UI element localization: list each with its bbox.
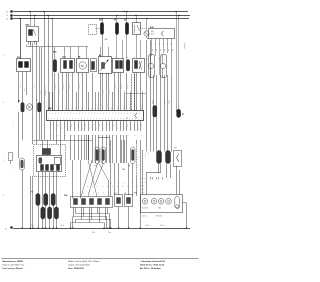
wire [118, 207, 120, 228]
wire [163, 43, 165, 53]
wire [54, 51, 56, 60]
wire [42, 172, 44, 207]
wire [112, 121, 114, 131]
wire [110, 140, 112, 197]
wire [134, 121, 136, 131]
wire [64, 47, 66, 51]
junction [37, 227, 38, 228]
wire [49, 172, 51, 207]
junction [43, 11, 44, 12]
valve pill [131, 147, 136, 164]
wire [38, 206, 40, 228]
dashed link [96, 28, 101, 30]
terminal [57, 165, 60, 171]
wire [160, 75, 162, 152]
svg-text:Manufacturer: BMW: Manufacturer: BMW [3, 260, 24, 263]
resistor [126, 60, 129, 72]
wire [44, 12, 46, 141]
title block rule [2, 258, 199, 260]
wire [86, 135, 88, 160]
svg-text:30: 30 [6, 11, 8, 13]
wire [170, 164, 172, 179]
wire [95, 92, 97, 110]
valve pill pair [101, 147, 106, 164]
wire [158, 164, 160, 174]
wire [18, 112, 20, 158]
wire [134, 73, 136, 111]
svg-text:0.75 br: 0.75 br [117, 90, 119, 94]
wire [47, 140, 49, 155]
wire [140, 140, 142, 228]
wire [56, 172, 58, 207]
wire [56, 131, 58, 144]
wire [136, 35, 138, 59]
wire [54, 73, 56, 111]
wire [92, 121, 94, 131]
wire crossing [88, 164, 97, 197]
wire [130, 92, 132, 110]
wire [32, 176, 34, 228]
junction [49, 227, 50, 228]
ECU symbol [135, 113, 137, 118]
svg-text:F23: F23 [99, 20, 102, 22]
svg-text:0.5 sw 0.5 br: 0.5 sw 0.5 br [141, 182, 148, 184]
gauge mark [144, 200, 146, 202]
connector [125, 195, 133, 207]
svg-text:R1: R1 [182, 114, 184, 116]
svg-text:B8: B8 [129, 165, 131, 167]
wire [41, 47, 43, 140]
svg-text:B14: B14 [174, 148, 177, 150]
cluster text [143, 216, 162, 218]
connector C110 [61, 59, 75, 73]
wire [38, 172, 40, 194]
svg-text:0.75 br: 0.75 br [65, 90, 67, 94]
svg-text:sw: sw [163, 49, 165, 51]
glow plug 6 [54, 207, 58, 219]
connector X40 [91, 59, 97, 72]
wire [53, 206, 55, 228]
wire [99, 208, 101, 223]
wire [108, 180, 110, 197]
connector [113, 59, 124, 73]
wire [97, 208, 99, 214]
module A12 [149, 29, 175, 39]
wire [74, 121, 76, 131]
wire [75, 220, 77, 223]
junction [178, 15, 179, 16]
module pin [163, 39, 165, 44]
junction [146, 18, 147, 19]
injection valve Y7 [161, 55, 167, 78]
unit box dashed [34, 145, 66, 177]
svg-text:Y28: Y28 [64, 195, 67, 197]
svg-text:0.5 sw/br: 0.5 sw/br [85, 84, 87, 90]
wire [137, 121, 139, 131]
wire [120, 73, 122, 111]
relay coil symbol [144, 31, 149, 36]
wire [83, 208, 85, 217]
svg-text:sw: sw [167, 49, 169, 51]
wire [84, 135, 86, 160]
fuse box dashed [89, 25, 97, 35]
svg-text:0.75 br: 0.75 br [23, 88, 25, 92]
junction [123, 11, 124, 12]
wire [42, 219, 44, 228]
terminal [19, 62, 23, 68]
svg-text:30 15 31b: 30 15 31b [142, 208, 148, 210]
wire [178, 16, 180, 113]
wire [151, 43, 153, 56]
wire [74, 135, 76, 160]
wire [140, 73, 142, 111]
svg-text:0.5 sw/br: 0.5 sw/br [62, 84, 64, 90]
wire [68, 73, 70, 111]
wire [109, 121, 111, 131]
junction [116, 15, 117, 16]
wire [100, 73, 102, 111]
svg-text:Year: 1998-2001: Year: 1998-2001 [68, 268, 85, 270]
wire [153, 75, 155, 152]
junction [106, 227, 107, 228]
wire [116, 121, 118, 131]
svg-text:sw: sw [171, 49, 173, 51]
wire [32, 43, 34, 48]
wire [81, 121, 83, 131]
wire [122, 40, 124, 59]
wire [98, 121, 100, 131]
junction [109, 227, 110, 228]
terminal [116, 61, 119, 69]
wire [22, 112, 24, 140]
glow plug 3 [51, 194, 55, 206]
tick row [151, 177, 163, 180]
wire [121, 140, 123, 163]
wire [114, 163, 116, 195]
junction [32, 227, 33, 228]
wire collector [33, 140, 92, 142]
wire [54, 47, 56, 51]
wire [130, 121, 132, 131]
svg-text:B1 a: B1 a [151, 34, 154, 36]
resistor R1 [177, 109, 181, 117]
wire [70, 223, 72, 228]
terminal [51, 165, 54, 171]
wire [32, 140, 34, 144]
sensor B7 [99, 57, 112, 74]
wire [150, 40, 152, 152]
wire [20, 19, 22, 60]
injector 4 [98, 199, 102, 205]
wire collector [76, 219, 111, 221]
svg-text:0.5 sw/br: 0.5 sw/br [105, 84, 107, 90]
terminal [25, 62, 29, 68]
svg-text:1.5 sw/ge: 1.5 sw/ge [160, 52, 162, 58]
terminal [70, 61, 73, 69]
wire [86, 73, 88, 111]
wire collector [27, 46, 88, 48]
wire link [126, 93, 146, 95]
wire [108, 49, 110, 57]
svg-text:0.75 br: 0.75 br [71, 90, 73, 94]
svg-text:0.5 sw/br: 0.5 sw/br [120, 84, 122, 90]
junction [128, 227, 129, 228]
sensor arrow [100, 60, 109, 72]
wire [62, 73, 64, 111]
wire [42, 140, 44, 155]
wire [126, 73, 128, 111]
svg-text:58 75a: 58 75a [141, 185, 145, 187]
glow plug 2 [44, 194, 48, 206]
svg-text:0.75 br: 0.75 br [44, 86, 46, 90]
fuse F5 [125, 23, 128, 35]
wire [155, 43, 157, 56]
wire [60, 131, 62, 155]
svg-text:X2: X2 [123, 169, 125, 171]
wire [73, 208, 75, 217]
injection valve Y6 [149, 55, 155, 78]
wire [110, 220, 112, 228]
wire [98, 92, 100, 110]
junction [45, 227, 46, 228]
shielded cable [134, 74, 136, 110]
wire [45, 172, 47, 194]
wire [146, 36, 148, 38]
wire [104, 223, 106, 228]
valve pill pair [95, 147, 100, 164]
relay box K4 [133, 23, 141, 35]
wire [140, 121, 142, 131]
terminal [41, 165, 44, 171]
wire [86, 49, 88, 59]
wire [116, 35, 118, 59]
wire [49, 219, 51, 228]
wire [86, 47, 88, 49]
wire collector [71, 222, 105, 224]
wire [72, 160, 74, 199]
sensor arrowhead [107, 60, 109, 62]
wire [64, 121, 66, 131]
wire [142, 92, 144, 110]
junction [103, 227, 104, 228]
junction [30, 227, 31, 228]
relay K36 coil [29, 30, 33, 36]
svg-text:0.75 br: 0.75 br [141, 90, 143, 94]
wire [159, 43, 161, 75]
wire [106, 73, 108, 111]
svg-text:0.75 br: 0.75 br [81, 90, 83, 94]
wire [171, 75, 173, 152]
wire [67, 121, 69, 131]
wire [92, 73, 94, 111]
svg-text:Bo 100 te Multidata: Bo 100 te Multidata [140, 267, 162, 270]
svg-text:1.5 sw/ws: 1.5 sw/ws [148, 52, 150, 58]
junction [53, 227, 54, 228]
svg-text:Engine code: M47 T U2: Engine code: M47 T U2 [3, 264, 26, 266]
terminal [120, 61, 123, 69]
svg-text:Model: 3-Serie (E46) 2.0D 320d: Model: 3-Serie (E46) 2.0D 320dse [68, 260, 100, 263]
instrument cluster [141, 195, 183, 213]
wire [179, 170, 181, 195]
wire [102, 135, 104, 163]
junction [118, 227, 119, 228]
wire [30, 43, 32, 48]
lamp connector [175, 197, 180, 209]
wire [106, 121, 108, 131]
wire [81, 208, 83, 220]
wire [72, 217, 74, 228]
pin labels [26, 25, 36, 43]
svg-text:0.5 br/sw: 0.5 br/sw [145, 152, 147, 157]
wire [78, 121, 80, 131]
module pin [155, 39, 157, 44]
wire [128, 163, 130, 195]
glow plug 4 [41, 207, 45, 219]
wire [36, 140, 38, 144]
suppressor [153, 106, 157, 118]
junction [42, 227, 43, 228]
connector [133, 59, 145, 73]
svg-text:0.75 br: 0.75 br [102, 90, 104, 94]
svg-text:2.5 sw: 2.5 sw [168, 100, 170, 104]
wire [183, 202, 187, 204]
wire [136, 140, 138, 143]
junction [126, 11, 127, 12]
motor M5 [77, 59, 89, 73]
wire [118, 163, 120, 195]
wire [106, 135, 108, 163]
svg-text:0.5 sw/br: 0.5 sw/br [114, 84, 116, 90]
junction [47, 15, 48, 16]
wire [116, 16, 118, 23]
terminal [46, 165, 49, 171]
relay K36 contact [34, 30, 37, 36]
svg-text:B4: B4 [36, 100, 38, 102]
wire [30, 12, 32, 27]
svg-text:0.75 br: 0.75 br [145, 225, 150, 227]
junction [21, 227, 22, 228]
gauge mark [153, 200, 155, 202]
wire [30, 176, 32, 228]
wire [80, 160, 82, 199]
sensor resistor [102, 63, 105, 69]
wire [146, 173, 148, 195]
wire [88, 135, 90, 160]
wire [32, 47, 34, 140]
valve Y12 [157, 151, 162, 164]
wire [132, 164, 134, 197]
wire [108, 47, 110, 49]
svg-text:Output: 100 (136) 4000: Output: 100 (136) 4000 [68, 263, 90, 266]
wire [106, 217, 108, 228]
wire [91, 208, 93, 220]
junction [29, 11, 30, 12]
junction [72, 227, 73, 228]
terminal [135, 61, 138, 69]
wire [102, 73, 104, 111]
wire [64, 51, 66, 59]
svg-text:0.75 br: 0.75 br [39, 90, 41, 94]
svg-text:0.5 sw/br: 0.5 sw/br [99, 84, 101, 90]
fuse F23 [100, 23, 103, 35]
svg-text:M: M [81, 64, 83, 68]
wire crossing [88, 160, 97, 197]
ECU A30 [47, 111, 144, 121]
dashed link [141, 28, 147, 30]
wire [107, 208, 109, 214]
svg-text:0.75 br: 0.75 br [33, 84, 35, 88]
injector 2 [82, 199, 86, 205]
svg-text:Y7: Y7 [157, 58, 159, 60]
svg-text:C29: C29 [114, 193, 117, 195]
gauge 3 [158, 199, 164, 205]
svg-text:30 15 31: 30 15 31 [141, 178, 146, 180]
svg-text:M31: M31 [53, 52, 57, 54]
svg-text:31: 31 [5, 228, 7, 230]
inner unit box [37, 156, 62, 172]
wire [66, 73, 68, 111]
svg-text:B0 D1 K9: B0 D1 K9 [156, 216, 162, 218]
wire [75, 208, 77, 214]
cluster text [142, 208, 162, 210]
wire [146, 40, 148, 152]
shielded cable [131, 74, 133, 110]
terminal [92, 62, 95, 70]
battery terminal 30 [6, 11, 13, 14]
wire [50, 121, 52, 131]
wire [36, 47, 38, 140]
wire [82, 73, 84, 111]
sub box [55, 158, 61, 165]
wire [88, 135, 90, 160]
wire [89, 208, 91, 223]
svg-text:P1: P1 [135, 193, 137, 195]
wire [70, 51, 72, 59]
wire [126, 135, 128, 163]
wire [156, 75, 158, 152]
svg-text:© Autodata Limited 2010: © Autodata Limited 2010 [140, 260, 166, 263]
svg-text:0.75 br: 0.75 br [19, 84, 21, 88]
wire crossing [99, 164, 108, 181]
junction [186, 227, 187, 228]
svg-text:0.5 sw/br: 0.5 sw/br [126, 84, 128, 90]
wire [136, 16, 138, 24]
gauge 2 [151, 199, 157, 205]
gauge mark [168, 200, 170, 202]
screen circle [26, 104, 32, 110]
svg-text:B2: B2 [18, 101, 20, 103]
wire [166, 164, 168, 179]
wire [136, 73, 138, 111]
svg-text:sw: sw [155, 49, 157, 51]
wire [88, 121, 90, 131]
wire [120, 121, 122, 131]
wire bus 15 [13, 15, 190, 17]
junction [19, 18, 20, 19]
wire [109, 214, 111, 228]
glow plug 5 [48, 207, 52, 219]
wire [20, 19, 22, 60]
wire [123, 135, 125, 163]
wire [50, 131, 52, 140]
module A12 text [151, 31, 154, 36]
wire [128, 207, 130, 228]
wire [78, 49, 80, 59]
svg-text:sw: sw [159, 49, 161, 51]
wire [171, 43, 173, 75]
wire bus 50 [13, 18, 189, 20]
wire [112, 135, 114, 163]
